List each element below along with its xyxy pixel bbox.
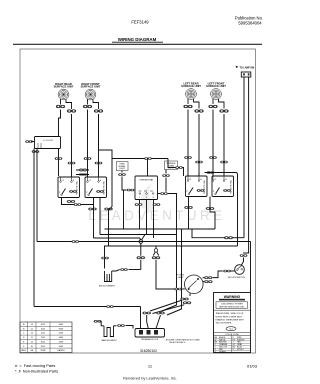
svg-text:3: 3 <box>153 197 155 199</box>
connector below clock <box>32 150 40 153</box>
connector right of oven lamp 2 <box>204 280 212 283</box>
infinite switch SW1 <box>58 177 80 198</box>
connector right of thermostat <box>160 192 168 195</box>
svg-text:600V: 600V <box>59 346 64 348</box>
wire receptacle drop 2 <box>167 229 182 315</box>
wire SW2 P out <box>93 198 95 239</box>
surface unit RF (right front) <box>81 82 101 109</box>
svg-text:* ♯ Non-Illustrated Parts: * ♯ Non-Illustrated Parts <box>15 369 58 374</box>
wire LR-A <box>187 110 189 177</box>
infinite switch SW3 <box>186 176 208 197</box>
wire left run to block <box>140 307 142 329</box>
svg-text:Rendered by LeadVenture, Inc.: Rendered by LeadVenture, Inc. <box>123 376 177 381</box>
connector below SW2 right <box>104 208 112 211</box>
wire node down <box>140 260 142 270</box>
connector below SW3 <box>184 206 192 209</box>
wire conn loop <box>76 170 89 175</box>
wire into block 1 <box>147 315 149 329</box>
lamp switch connector <box>241 72 251 77</box>
svg-text:105C: 105C <box>41 324 46 326</box>
connector on SW1 out <box>74 203 82 206</box>
wire SW1 P out <box>62 198 94 205</box>
surface unit LR (left rear) <box>181 82 201 109</box>
wire SW3 P out <box>188 197 190 230</box>
connector RR-A mid <box>55 157 63 160</box>
oven signal light <box>117 162 129 171</box>
wire thermostat left <box>133 189 136 191</box>
connector below oven lamp 2 <box>183 301 191 304</box>
connector below RF right lead <box>94 109 103 112</box>
wire oven lamp down <box>189 293 191 296</box>
svg-text:BROIL ELEMENT: BROIL ELEMENT <box>99 285 116 287</box>
wire lamp1 turn <box>232 237 244 239</box>
wire mid bus <box>112 158 168 160</box>
wire bake right <box>114 325 117 327</box>
connector below SW1 <box>67 200 75 203</box>
wire RR-B <box>71 114 73 177</box>
wire bake out <box>126 326 134 329</box>
svg-text:YELLOW STRIPE.: YELLOW STRIPE. <box>216 323 233 325</box>
connector below node <box>137 256 145 259</box>
wire lamp to terminal <box>150 301 184 314</box>
wire lamp1 <box>243 77 245 238</box>
svg-text:14: 14 <box>31 333 33 335</box>
svg-text:INFINITE SW.: INFINITE SW. <box>77 180 79 194</box>
wire bottom L1 <box>34 306 141 308</box>
svg-text:H: H <box>200 179 202 181</box>
connector on bus 2 <box>72 240 80 243</box>
connector below RR left lead <box>56 105 65 108</box>
svg-text:TO LAMP SW: TO LAMP SW <box>240 67 255 70</box>
connector above door switch <box>240 254 248 257</box>
connector on mid bus <box>144 157 152 160</box>
svg-text:200C: 200C <box>41 341 46 343</box>
svg-text:P: P <box>59 192 61 194</box>
bus line 2 drop <box>250 242 252 293</box>
wire door switch left <box>230 270 235 272</box>
wire lamp2 <box>244 77 249 254</box>
svg-text:# = Fast-moving Parts: # = Fast-moving Parts <box>15 363 55 368</box>
wire left L1 run <box>33 149 35 307</box>
jog connector between right switches <box>207 171 215 174</box>
door switch <box>235 265 245 275</box>
wire thermostat pin1 <box>139 200 141 230</box>
wire LR-B <box>198 114 200 176</box>
bus line 1 <box>105 228 216 230</box>
connector RF-A mid <box>84 157 92 160</box>
connector bake feed <box>94 320 102 323</box>
wire left N run <box>36 149 38 242</box>
svg-text:SURFACE UNIT: SURFACE UNIT <box>81 85 101 89</box>
svg-text:SURFACE UNIT: SURFACE UNIT <box>54 85 74 89</box>
svg-text:200C: 200C <box>41 346 46 348</box>
connector left of door switch <box>223 270 231 273</box>
connector left of oven lamp <box>174 288 182 291</box>
connector LR-B mid <box>195 161 203 164</box>
clock <box>35 137 61 149</box>
fork circle <box>154 249 157 252</box>
svg-text:01/03: 01/03 <box>247 364 258 369</box>
wire broil out <box>129 269 141 271</box>
connector left of clock <box>25 140 33 143</box>
svg-text:WIRING DIAGRAM: WIRING DIAGRAM <box>118 37 157 42</box>
connector left of thermostat <box>127 189 135 192</box>
wire LF-B <box>223 114 225 176</box>
connector right of bake <box>117 324 125 327</box>
svg-text:600V: 600V <box>59 324 64 326</box>
connector below LR right lead <box>194 109 203 112</box>
wire SW2 out b <box>99 198 101 235</box>
svg-text:1: 1 <box>139 197 141 199</box>
wire into block 2 <box>156 315 161 329</box>
wire LF-A <box>212 110 214 177</box>
svg-text:EXAMPLE: GREEN WIRE WITH: EXAMPLE: GREEN WIRE WITH <box>216 318 245 321</box>
svg-text:FEF3149: FEF3149 <box>131 20 149 25</box>
svg-text:RATING: RATING <box>57 349 65 352</box>
connector above broil element <box>101 257 109 260</box>
wire clock feed from burner wire <box>59 110 61 137</box>
svg-text:12: 12 <box>31 337 33 339</box>
connector below oven lamp 1 <box>180 298 188 301</box>
wire SW4 P out <box>210 197 215 230</box>
svg-text:INFINITE SW.: INFINITE SW. <box>104 180 106 194</box>
wire surface light feed <box>168 159 184 177</box>
svg-text:GA: GA <box>30 349 33 352</box>
diagram border frame <box>20 49 256 353</box>
connector pair above switch boxes 1 <box>79 169 87 172</box>
svg-text:150C: 150C <box>41 337 46 339</box>
bus line 5 <box>105 245 238 247</box>
svg-text:H: H <box>225 179 227 181</box>
connector below surface signal light <box>162 174 170 177</box>
svg-text:TERMINAL BLOCK: TERMINAL BLOCK <box>141 338 159 341</box>
wire RR-A <box>58 149 60 177</box>
wire SW2 out c <box>105 159 113 269</box>
wire thermostat pin3 <box>153 200 155 239</box>
svg-text:10: 10 <box>31 346 33 348</box>
svg-text:TRACER WIRE - WIRE COLOR: TRACER WIRE - WIRE COLOR <box>216 312 244 315</box>
connector below SW2 <box>88 208 96 211</box>
svg-text:A: A <box>23 323 25 326</box>
connector below SW4 <box>206 207 214 210</box>
svg-text:COLOR CODE: COLOR CODE <box>225 334 239 336</box>
bake element <box>101 326 117 342</box>
wire jog loop <box>199 173 238 247</box>
connector below LF left lead <box>208 105 217 108</box>
svg-text:DISCONNECT POWER: DISCONNECT POWER <box>221 304 243 306</box>
wire thermostat pin2 <box>146 200 148 235</box>
svg-text:14: 14 <box>31 324 33 326</box>
wire node stub <box>140 243 142 255</box>
svg-text:C: C <box>23 333 25 335</box>
svg-text:INFINITE SW.: INFINITE SW. <box>231 179 233 193</box>
surface signal light <box>165 161 178 170</box>
svg-text:WARNING: WARNING <box>224 295 241 299</box>
wire fork prongs <box>153 252 158 256</box>
wire RF-B2 <box>98 114 100 177</box>
svg-text:12: 12 <box>31 328 33 330</box>
surface unit RR (right rear) <box>54 82 74 109</box>
svg-text:TEMP: TEMP <box>40 350 46 352</box>
wire to oven lamp <box>156 260 175 289</box>
terminal block <box>135 329 165 338</box>
connector below fork <box>152 256 160 259</box>
wire thermostat top feed <box>147 159 149 177</box>
bus line 4 <box>94 238 142 240</box>
wire lamp left <box>181 288 185 290</box>
broil element <box>99 271 116 287</box>
svg-text:AWG: AWG <box>21 349 26 352</box>
wire lamp1 end <box>192 229 225 238</box>
wire gauge table <box>20 322 72 353</box>
connector RF-B mid <box>95 162 103 165</box>
svg-text:G-Y: G-Y <box>229 329 233 331</box>
connector above terminal block 2 <box>156 312 164 315</box>
connector on lamp1 wire <box>224 236 233 239</box>
connector LF-B mid <box>220 161 228 164</box>
connector pair above switch boxes 2 <box>79 173 87 176</box>
svg-text:600V: 600V <box>59 337 64 339</box>
svg-text:150C: 150C <box>41 333 46 335</box>
infinite switch SW2 <box>85 177 107 198</box>
svg-text:✱ DOOR SWITCH: ✱ DOOR SWITCH <box>228 276 245 279</box>
svg-text:P: P <box>213 191 215 193</box>
svg-text:⊙ CLOCK: ⊙ CLOCK <box>43 139 54 142</box>
wire fork stub <box>155 246 157 249</box>
svg-text:BEFORE SERVICING UNIT.: BEFORE SERVICING UNIT. <box>219 306 245 308</box>
svg-text:14: 14 <box>31 341 33 343</box>
svg-text:F: F <box>23 346 25 348</box>
svg-text:11: 11 <box>148 364 153 369</box>
svg-text:SURFACE UNIT: SURFACE UNIT <box>206 84 226 88</box>
surface unit LF (left front) <box>206 82 226 109</box>
svg-text:L1: L1 <box>62 180 65 182</box>
svg-text:600V: 600V <box>59 328 64 330</box>
svg-text:P: P <box>187 191 189 193</box>
connector on bottom L1 <box>106 305 114 308</box>
connector below thermostat 1 <box>135 203 143 206</box>
connector below thermostat 3 <box>153 203 161 206</box>
svg-text:E: E <box>23 341 25 343</box>
svg-text:H: H <box>100 180 102 182</box>
svg-text:INFINITE SW.: INFINITE SW. <box>204 179 206 193</box>
svg-text:LIGHT: LIGHT <box>119 168 125 170</box>
svg-text:L1: L1 <box>89 180 92 182</box>
oven lamp <box>185 275 204 294</box>
header rule <box>13 43 262 45</box>
bus line 3 <box>100 235 177 240</box>
svg-text:H: H <box>73 180 75 182</box>
wire door switch top <box>241 258 243 266</box>
svg-text:5995384004: 5995384004 <box>238 21 262 26</box>
connector right of oven lamp 1 <box>204 276 212 279</box>
wire oven light stub <box>122 171 127 191</box>
wire receptacle drop 1 <box>162 194 177 312</box>
connector LF-A mid <box>209 156 217 159</box>
thermostat <box>135 176 158 200</box>
wire lamp to door switch <box>213 271 223 278</box>
svg-text:NOTED FIRST, STRIPE NEXT.: NOTED FIRST, STRIPE NEXT. <box>216 316 243 318</box>
svg-text:ON ALL MODELS.: ON ALL MODELS. <box>169 341 186 344</box>
connector below RF left lead <box>83 105 92 108</box>
junction node <box>139 240 143 244</box>
connector below LF right lead <box>219 109 228 112</box>
wire bake drop <box>100 321 104 326</box>
wire RF-B <box>99 114 113 159</box>
svg-text:316250102: 316250102 <box>140 349 157 353</box>
connector RR-B mid <box>68 162 76 165</box>
connector right of broil <box>120 268 128 271</box>
infinite switch SW4 <box>212 176 234 197</box>
svg-text:B: B <box>23 328 25 330</box>
svg-text:L1: L1 <box>214 179 217 181</box>
bus line 2 <box>37 241 251 243</box>
svg-text:THERMOSTAT: THERMOSTAT <box>139 178 154 181</box>
connector box3 feed <box>175 166 183 169</box>
wire RF-A <box>87 110 89 178</box>
wire clock left <box>31 141 35 143</box>
svg-text:L1: L1 <box>189 179 192 181</box>
svg-text:LAMP: LAMP <box>178 276 184 279</box>
svg-text:600V: 600V <box>59 333 64 335</box>
connector below LR left lead <box>183 105 192 108</box>
connector above terminal block 1 <box>143 312 151 315</box>
svg-text:D: D <box>23 337 25 339</box>
svg-text:600V: 600V <box>59 341 64 343</box>
warning box <box>214 293 251 354</box>
svg-text:P: P <box>86 192 88 194</box>
wire oven light drop <box>123 190 125 229</box>
wire surface light stub <box>165 170 167 192</box>
svg-text:SURFACE UNIT: SURFACE UNIT <box>181 84 201 88</box>
connector LR-A mid <box>184 156 192 159</box>
wire lamp right <box>203 278 204 282</box>
wire thermostat right <box>158 193 161 195</box>
svg-text:BAKE ELEMENT: BAKE ELEMENT <box>101 339 117 342</box>
connector below RR right lead <box>67 109 76 112</box>
connector below oven signal light <box>118 173 126 176</box>
svg-text:105C: 105C <box>41 328 46 330</box>
wire broil right <box>112 270 120 272</box>
